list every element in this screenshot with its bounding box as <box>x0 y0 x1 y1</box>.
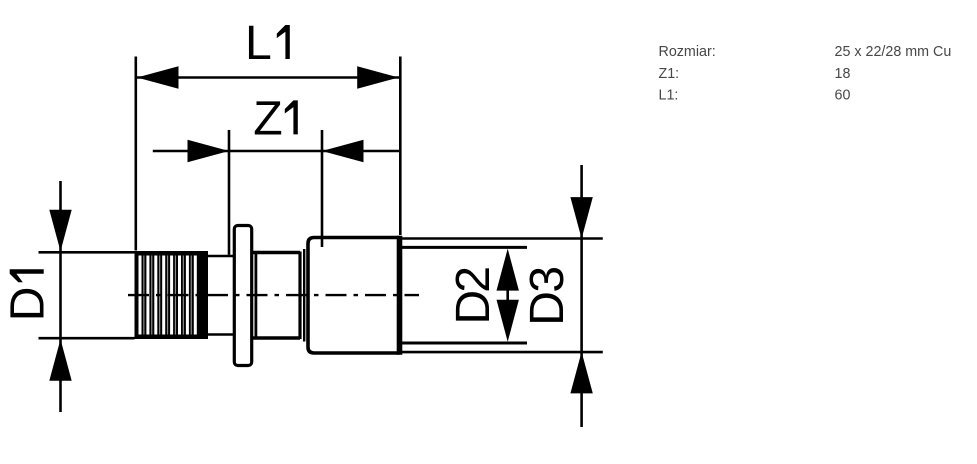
svg-text:Z: Z <box>253 91 282 145</box>
svg-text:D: D <box>1 287 55 322</box>
svg-text:3: 3 <box>520 266 574 293</box>
svg-text:D: D <box>446 290 500 325</box>
svg-text:60: 60 <box>835 87 851 103</box>
svg-text:2: 2 <box>446 266 500 293</box>
svg-text:L: L <box>245 16 272 70</box>
svg-text:25 x 22/28 mm Cu: 25 x 22/28 mm Cu <box>835 44 952 60</box>
svg-text:L1:: L1: <box>659 87 679 103</box>
svg-text:18: 18 <box>835 66 851 82</box>
svg-text:Z1:: Z1: <box>659 66 680 82</box>
svg-text:D: D <box>520 291 574 326</box>
svg-text:Rozmiar:: Rozmiar: <box>659 44 716 60</box>
